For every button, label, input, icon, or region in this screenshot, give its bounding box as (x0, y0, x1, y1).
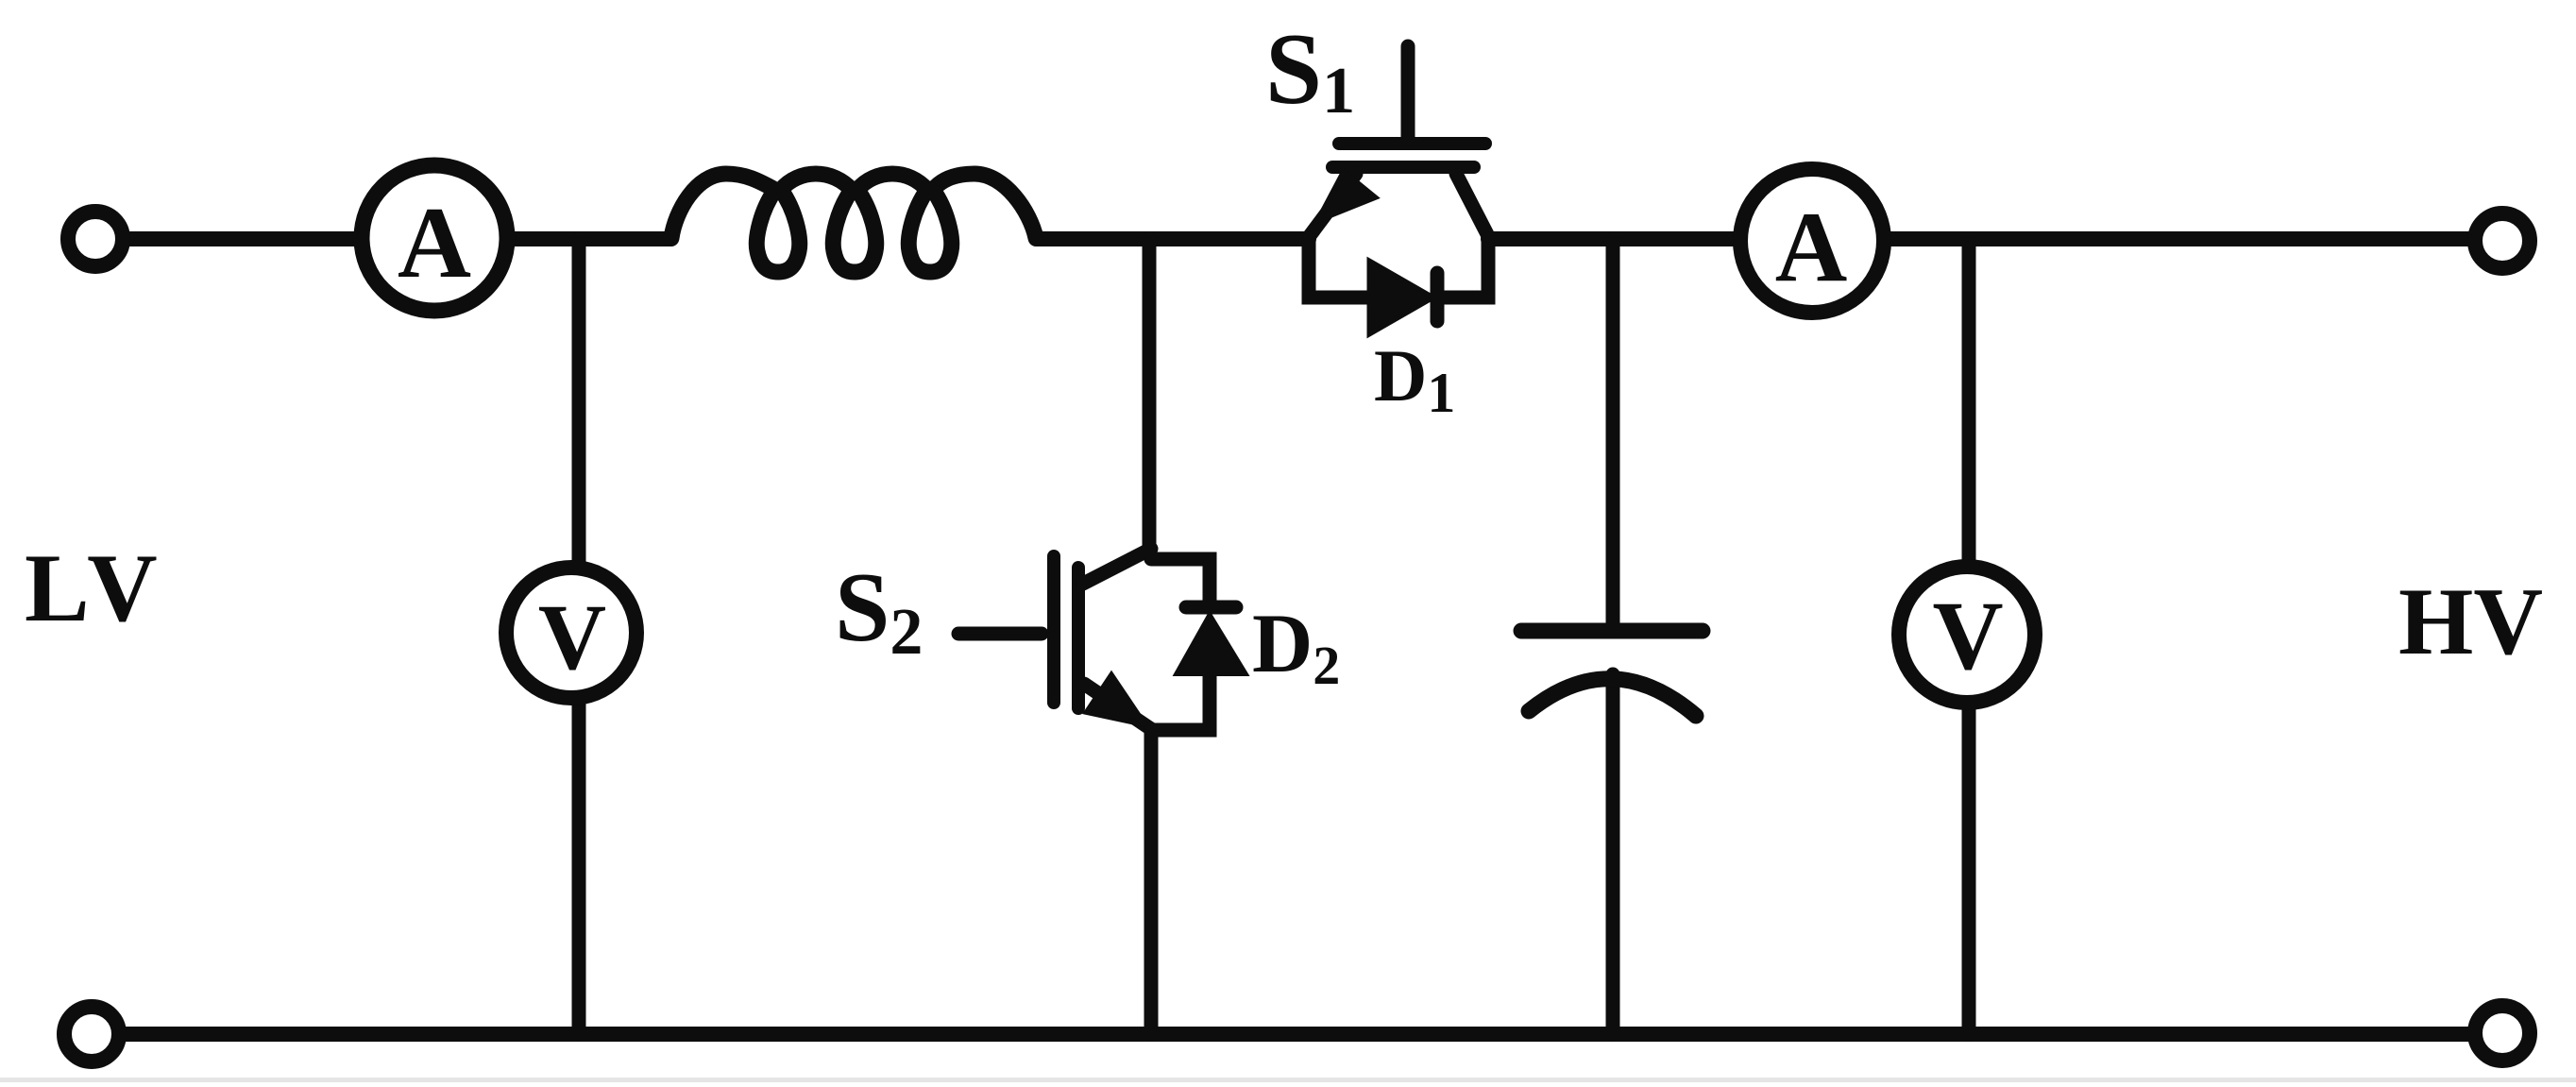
wire top-left (LV+ to node after ammeter to inductor) (130, 231, 671, 246)
terminal top-right (2475, 213, 2530, 268)
IGBT S2 body bar (1072, 568, 1085, 708)
svg-text:S2: S2 (835, 552, 923, 669)
diode D1 triangle (1369, 261, 1433, 334)
IGBT S2 emitter slant (1084, 684, 1151, 729)
wire LV voltmeter drop upper (572, 239, 586, 567)
svg-text:A: A (398, 187, 471, 299)
diode D1 right leg (1437, 239, 1488, 297)
scan artifact gray line (0, 1078, 2576, 1082)
diode D2 bottom leg (1151, 672, 1210, 730)
diode D2 triangle (1176, 614, 1246, 674)
svg-text:V: V (1932, 582, 2003, 690)
voltmeter V1 circle (506, 568, 636, 698)
IGBT S1 gate bar (1339, 137, 1485, 150)
capacitor C top plate (1521, 623, 1703, 639)
svg-text:D1: D1 (1374, 334, 1455, 424)
svg-text:HV: HV (2398, 569, 2543, 675)
ammeter A2 circle (1740, 169, 1884, 313)
wire HV voltmeter drop upper (1962, 239, 1976, 574)
ammeter A1 circle (362, 165, 507, 311)
wire capacitor bottom drop (1606, 674, 1620, 1034)
IGBT S1 emitter arrow (1318, 172, 1375, 220)
wire S2 collector drop (1143, 239, 1157, 551)
terminal bottom-right (2475, 1006, 2530, 1061)
IGBT S1 body bar (1332, 161, 1474, 174)
diode D1 cathode bar (1431, 273, 1445, 321)
IGBT S1 emitter slant (1309, 174, 1356, 237)
svg-text:S1: S1 (1265, 13, 1355, 127)
IGBT S2 emitter arrow (1087, 675, 1144, 724)
wire LV voltmeter drop lower (572, 703, 586, 1034)
voltmeter V2 circle (1899, 567, 2035, 703)
diode D2 top leg (1151, 559, 1210, 606)
wire capacitor top drop (1606, 239, 1620, 625)
IGBT S1 gate lead (1401, 46, 1415, 139)
IGBT S2 gate bar (1047, 556, 1060, 703)
wire top-right (S1 collector to HV+) (1488, 231, 2470, 246)
svg-text:D2: D2 (1252, 598, 1340, 696)
wire inductor to S1 emitter junction (1036, 231, 1309, 246)
wire HV voltmeter drop lower (1962, 697, 1976, 1034)
capacitor C bottom plate arc (1529, 679, 1696, 716)
IGBT S2 collector slant (1083, 549, 1151, 584)
IGBT S1 collector slant (1456, 174, 1488, 236)
svg-text:V: V (538, 585, 606, 689)
terminal top-left (68, 212, 123, 266)
svg-text:A: A (1775, 192, 1848, 302)
wire bottom rail (125, 1027, 2472, 1042)
inductor L coil (671, 174, 1036, 272)
svg-text:LV: LV (25, 535, 164, 642)
diode D1 left leg (1309, 239, 1369, 297)
wire S2 emitter drop (1144, 729, 1159, 1034)
terminal bottom-left (64, 1007, 119, 1062)
diode D2 cathode bar (1186, 601, 1236, 615)
IGBT S2 gate lead (958, 627, 1042, 641)
